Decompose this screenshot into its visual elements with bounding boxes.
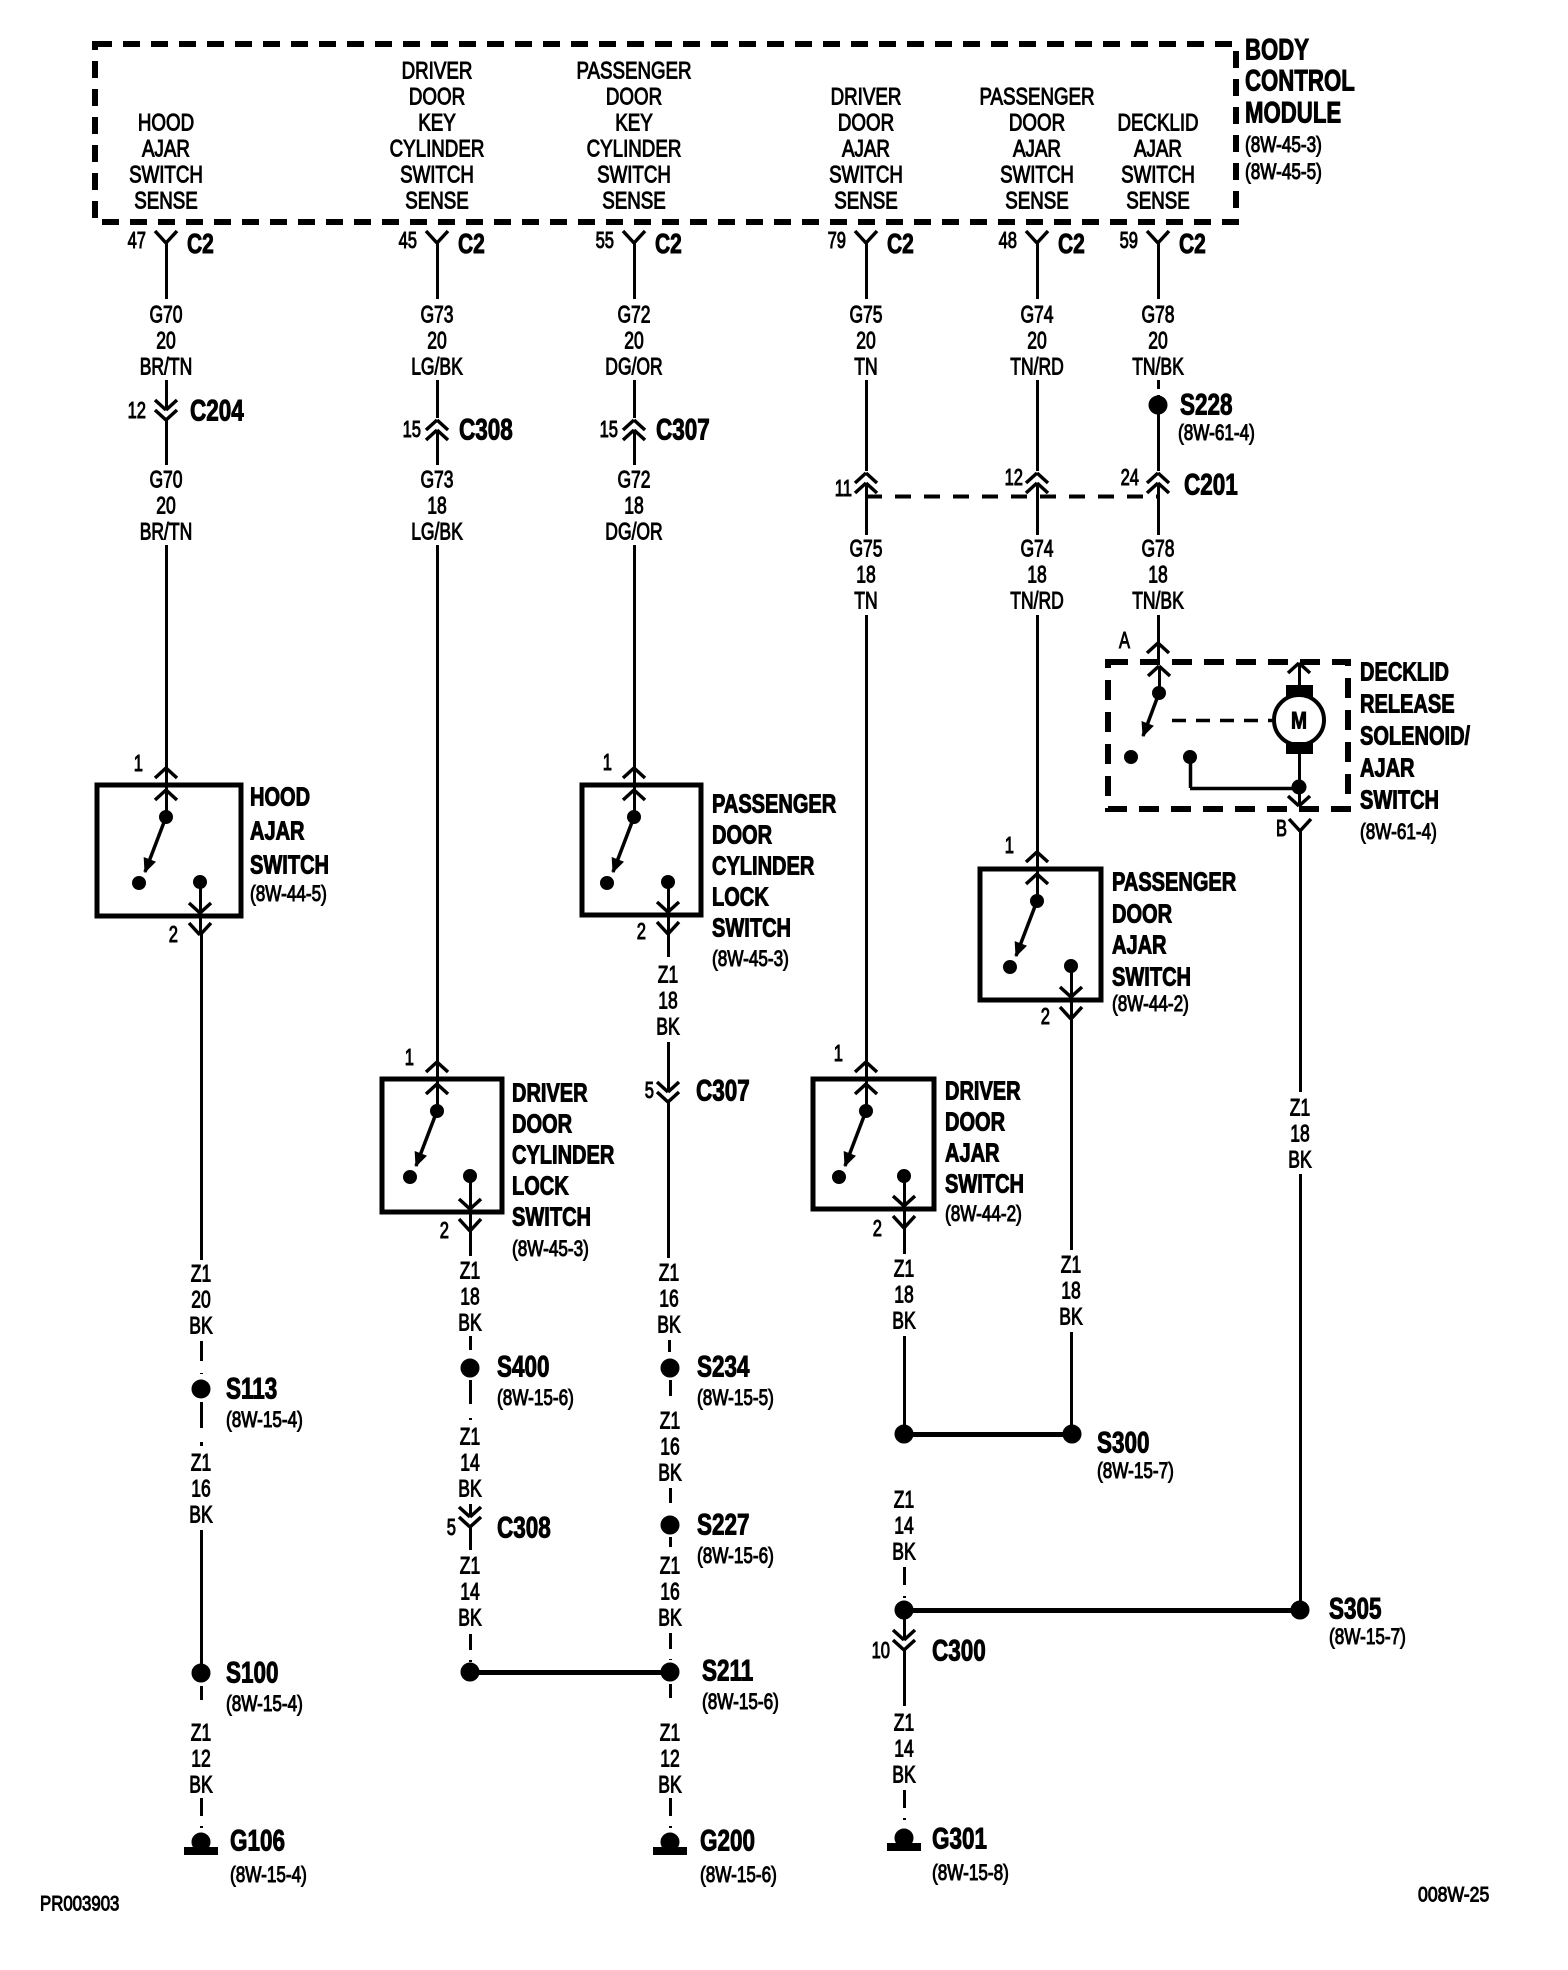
svg-text:TN/RD: TN/RD — [1010, 588, 1064, 615]
svg-text:18: 18 — [460, 1284, 480, 1311]
svg-text:DOOR: DOOR — [945, 1106, 1005, 1136]
svg-text:1: 1 — [1005, 832, 1014, 858]
svg-text:S234: S234 — [697, 1351, 750, 1384]
svg-text:BK: BK — [656, 1014, 679, 1041]
svg-text:SENSE: SENSE — [134, 188, 198, 215]
svg-text:14: 14 — [894, 1736, 914, 1763]
svg-text:G70: G70 — [149, 302, 182, 329]
svg-text:(8W-15-5): (8W-15-5) — [697, 1385, 774, 1410]
svg-text:20: 20 — [856, 328, 876, 355]
svg-text:18: 18 — [1148, 562, 1168, 589]
svg-text:18: 18 — [856, 562, 876, 589]
svg-text:(8W-15-6): (8W-15-6) — [697, 1543, 774, 1568]
svg-text:(8W-44-5): (8W-44-5) — [250, 881, 327, 906]
svg-text:TN: TN — [854, 354, 877, 381]
svg-text:(8W-45-3): (8W-45-3) — [1245, 132, 1322, 157]
svg-text:SENSE: SENSE — [602, 188, 666, 215]
svg-text:PASSENGER: PASSENGER — [1112, 866, 1236, 896]
svg-text:HOOD: HOOD — [138, 110, 194, 137]
svg-text:2: 2 — [440, 1217, 449, 1243]
svg-text:(8W-45-5): (8W-45-5) — [1245, 159, 1322, 184]
svg-text:CYLINDER: CYLINDER — [712, 850, 814, 880]
svg-text:LOCK: LOCK — [512, 1170, 569, 1200]
svg-text:1: 1 — [834, 1040, 843, 1066]
svg-text:18: 18 — [658, 988, 678, 1015]
svg-text:TN: TN — [854, 588, 877, 615]
svg-text:2: 2 — [1041, 1003, 1050, 1029]
svg-text:20: 20 — [427, 328, 447, 355]
svg-text:16: 16 — [660, 1434, 680, 1461]
svg-text:(8W-15-7): (8W-15-7) — [1097, 1458, 1174, 1483]
svg-text:C2: C2 — [655, 228, 682, 259]
svg-text:SENSE: SENSE — [834, 188, 898, 215]
svg-text:S113: S113 — [226, 1373, 277, 1406]
svg-text:S211: S211 — [702, 1655, 753, 1688]
svg-text:DRIVER: DRIVER — [402, 58, 473, 85]
svg-text:Z1: Z1 — [460, 1553, 480, 1580]
svg-text:14: 14 — [460, 1579, 480, 1606]
svg-text:G70: G70 — [149, 467, 182, 494]
svg-text:C308: C308 — [459, 414, 513, 447]
svg-text:C307: C307 — [656, 414, 710, 447]
svg-text:Z1: Z1 — [659, 1260, 679, 1287]
svg-text:C2: C2 — [187, 228, 214, 259]
svg-text:CYLINDER: CYLINDER — [512, 1139, 614, 1169]
svg-text:BK: BK — [1059, 1304, 1082, 1331]
svg-text:G74: G74 — [1020, 536, 1053, 563]
svg-text:12: 12 — [660, 1746, 680, 1773]
svg-text:CYLINDER: CYLINDER — [390, 136, 485, 163]
svg-text:12: 12 — [128, 397, 146, 423]
svg-text:5: 5 — [645, 1077, 654, 1103]
svg-text:DG/OR: DG/OR — [605, 354, 662, 381]
svg-text:18: 18 — [1290, 1121, 1310, 1148]
svg-text:DECKLID: DECKLID — [1117, 110, 1198, 137]
svg-text:CYLINDER: CYLINDER — [587, 136, 682, 163]
svg-text:DOOR: DOOR — [512, 1108, 572, 1138]
svg-text:Z1: Z1 — [191, 1450, 211, 1477]
svg-text:47: 47 — [128, 227, 146, 253]
svg-text:DOOR: DOOR — [1112, 898, 1172, 928]
svg-text:Z1: Z1 — [1290, 1095, 1310, 1122]
svg-text:48: 48 — [999, 227, 1017, 253]
svg-text:(8W-61-4): (8W-61-4) — [1360, 819, 1437, 844]
svg-text:18: 18 — [427, 493, 447, 520]
svg-text:AJAR: AJAR — [250, 815, 305, 845]
svg-text:2: 2 — [873, 1215, 882, 1241]
svg-text:S227: S227 — [697, 1509, 750, 1542]
svg-text:S100: S100 — [226, 1657, 279, 1690]
svg-text:10: 10 — [872, 1637, 890, 1663]
svg-text:SWITCH: SWITCH — [829, 162, 903, 189]
svg-text:12: 12 — [1005, 464, 1023, 490]
svg-text:AJAR: AJAR — [842, 136, 890, 163]
svg-text:AJAR: AJAR — [1013, 136, 1061, 163]
svg-text:S400: S400 — [497, 1351, 550, 1384]
svg-text:SWITCH: SWITCH — [1121, 162, 1195, 189]
svg-text:45: 45 — [399, 227, 417, 253]
svg-text:M: M — [1291, 708, 1307, 735]
svg-text:(8W-15-4): (8W-15-4) — [226, 1407, 303, 1432]
svg-text:C204: C204 — [190, 395, 244, 428]
svg-text:SWITCH: SWITCH — [1112, 961, 1191, 991]
svg-text:DOOR: DOOR — [606, 84, 662, 111]
svg-text:(8W-15-4): (8W-15-4) — [230, 1862, 307, 1887]
svg-text:1: 1 — [603, 749, 612, 775]
svg-text:G200: G200 — [700, 1825, 755, 1858]
svg-text:BK: BK — [458, 1310, 481, 1337]
svg-text:MODULE: MODULE — [1245, 97, 1341, 130]
svg-text:(8W-45-3): (8W-45-3) — [712, 946, 789, 971]
svg-text:55: 55 — [596, 227, 614, 253]
svg-text:2: 2 — [169, 921, 178, 947]
svg-text:G75: G75 — [849, 536, 882, 563]
svg-text:20: 20 — [1027, 328, 1047, 355]
svg-text:59: 59 — [1120, 227, 1138, 253]
svg-text:SOLENOID/: SOLENOID/ — [1360, 720, 1470, 750]
svg-text:RELEASE: RELEASE — [1360, 688, 1455, 718]
svg-text:15: 15 — [600, 416, 618, 442]
svg-text:(8W-61-4): (8W-61-4) — [1178, 420, 1255, 445]
svg-text:24: 24 — [1121, 464, 1140, 490]
svg-text:Z1: Z1 — [191, 1261, 211, 1288]
svg-text:G73: G73 — [420, 467, 453, 494]
svg-text:18: 18 — [1061, 1278, 1081, 1305]
svg-text:BK: BK — [458, 1476, 481, 1503]
svg-text:G72: G72 — [617, 467, 650, 494]
svg-text:KEY: KEY — [615, 110, 653, 137]
svg-text:16: 16 — [660, 1579, 680, 1606]
svg-text:(8W-15-7): (8W-15-7) — [1329, 1624, 1406, 1649]
svg-text:PASSENGER: PASSENGER — [576, 58, 691, 85]
svg-text:PASSENGER: PASSENGER — [979, 84, 1094, 111]
svg-text:Z1: Z1 — [660, 1553, 680, 1580]
svg-text:BK: BK — [458, 1605, 481, 1632]
svg-text:BR/TN: BR/TN — [140, 519, 193, 546]
svg-text:SWITCH: SWITCH — [512, 1201, 591, 1231]
svg-text:20: 20 — [156, 328, 176, 355]
svg-text:Z1: Z1 — [460, 1258, 480, 1285]
svg-text:AJAR: AJAR — [1360, 752, 1415, 782]
svg-text:14: 14 — [894, 1513, 914, 1540]
svg-text:S228: S228 — [1180, 389, 1233, 422]
svg-text:Z1: Z1 — [1061, 1252, 1081, 1279]
svg-text:(8W-45-3): (8W-45-3) — [512, 1236, 589, 1261]
svg-text:C308: C308 — [497, 1512, 551, 1545]
svg-text:C2: C2 — [458, 228, 485, 259]
svg-text:BK: BK — [658, 1460, 681, 1487]
svg-text:SWITCH: SWITCH — [400, 162, 474, 189]
svg-text:C201: C201 — [1184, 469, 1238, 502]
svg-text:PASSENGER: PASSENGER — [712, 788, 836, 818]
svg-text:SENSE: SENSE — [1126, 188, 1190, 215]
svg-text:18: 18 — [624, 493, 644, 520]
svg-text:DOOR: DOOR — [1009, 110, 1065, 137]
svg-text:2: 2 — [637, 918, 646, 944]
svg-text:11: 11 — [835, 475, 852, 501]
svg-text:G106: G106 — [230, 1825, 285, 1858]
svg-text:G75: G75 — [849, 302, 882, 329]
svg-text:BK: BK — [657, 1312, 680, 1339]
svg-text:DOOR: DOOR — [712, 819, 772, 849]
svg-text:20: 20 — [1148, 328, 1168, 355]
svg-text:C2: C2 — [1058, 228, 1085, 259]
svg-text:BODY: BODY — [1245, 34, 1309, 67]
svg-text:(8W-15-8): (8W-15-8) — [932, 1860, 1009, 1885]
svg-text:G301: G301 — [932, 1823, 987, 1856]
svg-text:C307: C307 — [696, 1075, 750, 1108]
svg-text:SWITCH: SWITCH — [250, 849, 329, 879]
svg-text:BK: BK — [892, 1762, 915, 1789]
svg-text:G74: G74 — [1020, 302, 1053, 329]
svg-text:DRIVER: DRIVER — [512, 1077, 588, 1107]
svg-text:Z1: Z1 — [894, 1710, 914, 1737]
svg-text:SENSE: SENSE — [405, 188, 469, 215]
svg-text:SWITCH: SWITCH — [129, 162, 203, 189]
svg-text:12: 12 — [191, 1746, 211, 1773]
svg-text:18: 18 — [894, 1282, 914, 1309]
svg-text:SENSE: SENSE — [1005, 188, 1069, 215]
svg-text:(8W-15-6): (8W-15-6) — [497, 1385, 574, 1410]
svg-text:Z1: Z1 — [660, 1720, 680, 1747]
svg-text:G73: G73 — [420, 302, 453, 329]
svg-text:1: 1 — [405, 1044, 414, 1070]
svg-text:16: 16 — [659, 1286, 679, 1313]
svg-text:Z1: Z1 — [660, 1408, 680, 1435]
svg-text:S300: S300 — [1097, 1427, 1150, 1460]
svg-text:C2: C2 — [887, 228, 914, 259]
svg-text:DRIVER: DRIVER — [831, 84, 902, 111]
svg-text:AJAR: AJAR — [1134, 136, 1182, 163]
svg-text:BK: BK — [658, 1772, 681, 1799]
svg-text:BK: BK — [189, 1313, 212, 1340]
svg-text:TN/BK: TN/BK — [1132, 354, 1184, 381]
svg-text:LG/BK: LG/BK — [411, 519, 463, 546]
svg-text:20: 20 — [156, 493, 176, 520]
svg-text:15: 15 — [403, 416, 421, 442]
svg-text:(8W-15-4): (8W-15-4) — [226, 1691, 303, 1716]
svg-text:HOOD: HOOD — [250, 781, 310, 811]
svg-text:(8W-44-2): (8W-44-2) — [1112, 991, 1189, 1016]
svg-text:C2: C2 — [1179, 228, 1206, 259]
svg-text:AJAR: AJAR — [945, 1137, 1000, 1167]
svg-text:5: 5 — [447, 1514, 456, 1540]
svg-text:14: 14 — [460, 1450, 480, 1477]
svg-text:SWITCH: SWITCH — [712, 912, 791, 942]
svg-text:BK: BK — [658, 1605, 681, 1632]
svg-text:DOOR: DOOR — [838, 110, 894, 137]
svg-text:(8W-15-6): (8W-15-6) — [702, 1689, 779, 1714]
svg-text:DOOR: DOOR — [409, 84, 465, 111]
svg-text:S305: S305 — [1329, 1593, 1382, 1626]
svg-text:SWITCH: SWITCH — [945, 1168, 1024, 1198]
svg-text:BR/TN: BR/TN — [140, 354, 193, 381]
svg-text:AJAR: AJAR — [142, 136, 190, 163]
svg-text:DG/OR: DG/OR — [605, 519, 662, 546]
svg-text:Z1: Z1 — [460, 1424, 480, 1451]
svg-text:Z1: Z1 — [658, 962, 678, 989]
svg-text:Z1: Z1 — [191, 1720, 211, 1747]
svg-text:LG/BK: LG/BK — [411, 354, 463, 381]
svg-text:1: 1 — [134, 750, 143, 776]
svg-text:G78: G78 — [1141, 536, 1174, 563]
svg-text:008W-25: 008W-25 — [1418, 1884, 1489, 1907]
svg-text:KEY: KEY — [418, 110, 456, 137]
svg-text:Z1: Z1 — [894, 1256, 914, 1283]
svg-text:TN/RD: TN/RD — [1010, 354, 1064, 381]
svg-text:18: 18 — [1027, 562, 1047, 589]
svg-text:SWITCH: SWITCH — [1000, 162, 1074, 189]
svg-text:BK: BK — [189, 1772, 212, 1799]
svg-text:PR003903: PR003903 — [40, 1893, 119, 1916]
svg-text:BK: BK — [189, 1502, 212, 1529]
svg-text:AJAR: AJAR — [1112, 929, 1167, 959]
svg-text:20: 20 — [191, 1287, 211, 1314]
svg-text:BK: BK — [892, 1308, 915, 1335]
svg-text:TN/BK: TN/BK — [1132, 588, 1184, 615]
svg-text:A: A — [1119, 627, 1130, 653]
svg-text:SWITCH: SWITCH — [597, 162, 671, 189]
svg-text:B: B — [1276, 815, 1287, 841]
svg-text:DRIVER: DRIVER — [945, 1075, 1021, 1105]
svg-text:16: 16 — [191, 1476, 211, 1503]
svg-text:79: 79 — [828, 227, 846, 253]
svg-text:CONTROL: CONTROL — [1245, 65, 1355, 98]
svg-text:BK: BK — [892, 1539, 915, 1566]
svg-text:BK: BK — [1288, 1147, 1311, 1174]
svg-text:G78: G78 — [1141, 302, 1174, 329]
svg-text:G72: G72 — [617, 302, 650, 329]
svg-text:LOCK: LOCK — [712, 881, 769, 911]
svg-text:20: 20 — [624, 328, 644, 355]
svg-text:(8W-44-2): (8W-44-2) — [945, 1201, 1022, 1226]
svg-text:Z1: Z1 — [894, 1487, 914, 1514]
svg-text:C300: C300 — [932, 1635, 986, 1668]
svg-text:DECKLID: DECKLID — [1360, 656, 1449, 686]
svg-text:(8W-15-6): (8W-15-6) — [700, 1862, 777, 1887]
svg-text:SWITCH: SWITCH — [1360, 784, 1439, 814]
